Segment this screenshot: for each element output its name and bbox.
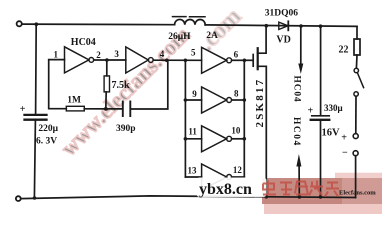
op-amp U1D bubble <box>227 98 232 103</box>
svg-text:+: + <box>308 106 314 117</box>
op-amp U1E bubble <box>227 136 232 141</box>
watermark chinese chars 电子发烧友 <box>263 181 339 197</box>
junction output bus pin10 <box>243 137 247 141</box>
svg-text:HC04: HC04 <box>292 76 302 103</box>
svg-text:390p: 390p <box>116 124 136 134</box>
wire HC04 vcc stub <box>300 26 302 65</box>
svg-text:10: 10 <box>231 126 241 136</box>
op-amp U1C bubble <box>227 58 232 63</box>
wire pin10 output <box>232 138 245 140</box>
op-amp U1F bubble <box>227 175 232 180</box>
transistor Q1 gate bar <box>252 55 254 67</box>
wire 7.5k top lead <box>106 60 108 76</box>
wire 330u top lead <box>320 26 322 115</box>
op-amp U1B output bubble <box>148 58 153 63</box>
svg-text:VD: VD <box>276 35 290 46</box>
ground terminal bottom-left <box>16 196 21 201</box>
wire top rail corner to R22 <box>356 26 358 39</box>
op-amp U1D inverter triangle row2 <box>202 87 227 113</box>
svg-text:6. 3V: 6. 3V <box>36 137 57 147</box>
svg-text:26μH: 26μH <box>168 32 191 42</box>
svg-text:13: 13 <box>188 166 198 176</box>
svg-text:31DQ06: 31DQ06 <box>265 8 299 18</box>
inductor core dashes <box>173 16 206 18</box>
svg-text:7.5k: 7.5k <box>112 80 131 91</box>
wire bottom rail <box>21 196 356 199</box>
wire 7.5k bottom lead <box>105 92 107 109</box>
diode VD cathode bar <box>287 21 289 30</box>
resistor 1M body <box>66 106 84 111</box>
resistor R 22 body <box>354 39 360 55</box>
watermark ybx8 white halo box <box>197 178 267 198</box>
output terminal minus <box>353 151 358 156</box>
wire source lead <box>258 66 267 197</box>
svg-text:2A: 2A <box>206 31 218 41</box>
junction top rail at VCC drop <box>35 22 39 26</box>
junction feedback at pin4 <box>165 59 169 63</box>
wire pin1 input <box>49 60 67 109</box>
wire pin2 to pin3 <box>94 59 126 61</box>
wire pin8 output <box>232 99 245 101</box>
capacitor C2 330u plates <box>312 115 329 117</box>
junction pin2 node <box>105 58 109 62</box>
junction input bus top <box>184 59 188 63</box>
watermark pink corner block bottom-right <box>335 173 382 214</box>
wire pin4 to bank input <box>153 59 201 61</box>
svg-text:4: 4 <box>160 49 165 59</box>
svg-text:9: 9 <box>192 89 197 99</box>
junction input bus pin11 <box>184 137 188 141</box>
junction C1 at bottom rail <box>33 196 37 200</box>
svg-text:12: 12 <box>233 165 243 175</box>
svg-text:+: + <box>20 104 26 115</box>
watermark red band background <box>262 178 382 204</box>
wire pin13 input <box>185 176 201 178</box>
wire pin12 output <box>232 176 245 178</box>
watermark echo .com top <box>194 3 247 56</box>
svg-text:HC04: HC04 <box>291 117 301 147</box>
transistor Q1 channel bar <box>257 48 259 69</box>
wire 330u bottom lead <box>320 121 322 197</box>
junction source at bottom rail <box>265 195 269 199</box>
output terminal plus <box>353 134 358 139</box>
switch S contact top <box>354 68 358 72</box>
svg-text:220μ: 220μ <box>38 124 58 134</box>
capacitor C1 220u plates <box>25 115 47 120</box>
input terminal top-left <box>17 21 22 26</box>
wire top rail left segment <box>22 23 175 26</box>
svg-text:−: − <box>342 148 348 159</box>
op-amp U1B inverter triangle <box>126 47 149 73</box>
svg-text:8: 8 <box>234 89 239 99</box>
switch S contact bottom <box>354 92 358 96</box>
wire minus terminal to bottom rail <box>355 156 357 198</box>
svg-text:330μ: 330μ <box>324 103 343 113</box>
svg-text:11: 11 <box>188 127 197 137</box>
junction diode cathode rail <box>299 24 303 28</box>
svg-text:22: 22 <box>339 45 349 56</box>
wire pin9 input <box>185 99 201 101</box>
svg-text:5: 5 <box>191 48 196 58</box>
capacitor 390p plates <box>123 102 131 117</box>
svg-text:16V: 16V <box>322 127 341 138</box>
junction 330u top rail <box>319 24 323 28</box>
junction output bus pin8 <box>243 98 247 102</box>
wire output bus vertical <box>243 60 245 177</box>
arrow HC04 gnd up <box>296 154 301 167</box>
junction drain at top rail <box>265 24 269 28</box>
wire gate lead <box>244 59 252 61</box>
watermark diagonal www.elecfans.com <box>56 22 195 161</box>
op-amp U1A output bubble <box>89 58 94 63</box>
wire input bus vertical <box>184 60 186 177</box>
junction node X <box>104 107 108 111</box>
wire switch to plus terminal <box>355 96 357 133</box>
resistor 7.5k body <box>104 76 109 92</box>
diode VD body <box>279 22 288 29</box>
wire 1M to node X <box>84 108 122 110</box>
svg-text:3: 3 <box>114 49 119 59</box>
junction output bus pin6 <box>243 59 247 63</box>
switch S blade <box>357 73 363 88</box>
watermark pink strip bottom edge <box>264 200 382 214</box>
arrow HC04 vcc down <box>298 64 303 75</box>
svg-text:HC04: HC04 <box>71 37 96 48</box>
wire C1 to bottom rail <box>34 121 35 198</box>
svg-text:2: 2 <box>96 50 101 60</box>
wire pin11 input <box>185 138 201 140</box>
svg-text:6: 6 <box>234 50 239 60</box>
inductor L 26uH coil <box>175 19 206 24</box>
wire top rail right segment <box>205 25 357 27</box>
svg-text:2SK817: 2SK817 <box>254 78 266 128</box>
op-amp U1C inverter triangle row1 <box>202 47 227 73</box>
junction 330u at bottom rail <box>319 195 323 199</box>
wire 390p to feedback riser <box>131 60 168 109</box>
wire drain lead <box>258 26 266 53</box>
op-amp U1E inverter triangle row3 <box>202 126 227 152</box>
svg-text:1: 1 <box>54 49 59 59</box>
wire VCC drop to C1 <box>35 24 38 114</box>
svg-text:ybx8.cn: ybx8.cn <box>199 181 252 198</box>
wire HC04 gnd stub <box>298 166 300 197</box>
junction HC04 gnd at bottom rail <box>298 195 302 199</box>
svg-text:Elecfans.com: Elecfans.com <box>339 189 376 196</box>
op-amp U1A inverter triangle <box>65 47 89 73</box>
wire pin6 output <box>232 59 245 61</box>
junction input bus pin9 <box>184 98 188 102</box>
svg-text:1M: 1M <box>67 96 81 106</box>
svg-text:+: + <box>341 132 347 143</box>
wire R22 to switch <box>355 55 358 68</box>
op-amp U1F inverter triangle row4 <box>202 164 227 190</box>
